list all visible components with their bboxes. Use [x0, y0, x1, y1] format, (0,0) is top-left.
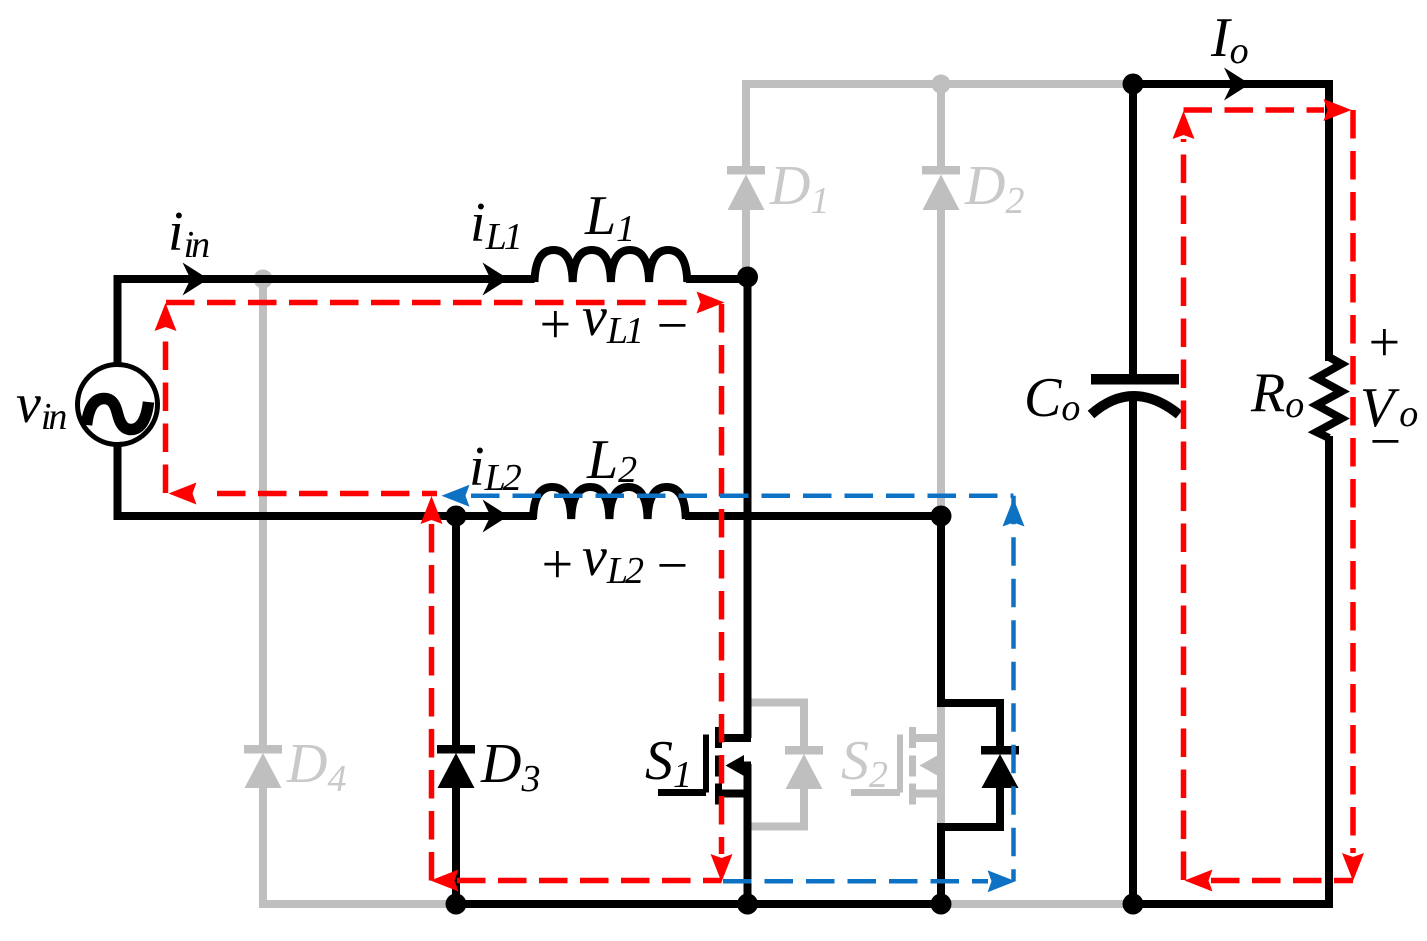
capacitor Co top plate	[1091, 374, 1179, 385]
svg-text:−: −	[653, 535, 691, 597]
arrow i_L1 on wire	[483, 263, 509, 296]
wire node A to L2	[452, 512, 536, 520]
arrowhead red up (loop2 left)	[1173, 111, 1195, 139]
node bottom rail dot 4	[1123, 894, 1144, 915]
arrowhead blue right (bottom)	[988, 870, 1016, 892]
wire gray top rail	[746, 84, 1133, 170]
wire D2 branch lower	[937, 210, 945, 516]
node bottom rail dot 3	[931, 894, 952, 915]
diode D1 symbol	[727, 166, 765, 210]
resistor Ro zigzag	[1317, 357, 1342, 438]
arrowhead red down (loop2 right)	[1342, 853, 1364, 881]
wire red loop2 right vertical	[1350, 110, 1356, 853]
ac source vin wires	[118, 279, 535, 365]
wire red loop1 middle vertical	[719, 304, 725, 854]
wire bottom rail right	[1129, 900, 1333, 908]
diode D3 symbol	[437, 745, 475, 788]
transistor S1 (black mosfet symbol)	[658, 727, 752, 805]
wire top right rail	[1133, 84, 1329, 361]
arrowhead red up (loop1 inner)	[421, 496, 443, 524]
wire S2 body diode lower jog	[941, 787, 1000, 904]
wire L2 to node C	[685, 512, 945, 520]
arrowhead red left (loop2 bottom)	[1185, 870, 1213, 892]
wire red loop1 left vertical	[163, 330, 169, 493]
ac source vin sine glyph	[87, 399, 149, 430]
arrowhead red down (loop1 middle)	[711, 854, 733, 882]
arrowhead red right (loop2 top)	[1324, 99, 1352, 121]
wire L1 to node B	[686, 275, 751, 283]
node (gray junction on top input wire)	[254, 270, 273, 289]
arrow I_o on output wire	[1224, 68, 1250, 101]
wire node C down and jog to S2 body diode	[941, 514, 1000, 747]
arrowhead blue left (top)	[442, 485, 470, 507]
wire capacitor Co lower	[1129, 398, 1137, 904]
node B junction dot	[737, 267, 758, 288]
arrowhead red up (loop1 left)	[155, 303, 177, 331]
arrow i_L2 on wire	[483, 500, 509, 533]
transistor S1 arrow	[726, 755, 745, 776]
diode D4 symbol	[244, 745, 282, 788]
ac source vin circle	[78, 365, 158, 445]
arrowhead blue up (right vertical)	[1003, 499, 1025, 527]
wire node B down to S1 drain	[744, 275, 752, 738]
wire red loop2 left vertical	[1181, 139, 1187, 880]
wire D3 branch upper	[452, 516, 460, 745]
wire D2 branch upper	[937, 84, 945, 170]
wire gray bottom left rail	[263, 788, 456, 904]
node (gray junction top rail / D2)	[932, 75, 951, 94]
wire D3 branch lower	[452, 786, 460, 904]
inductor L1 coil	[535, 250, 688, 282]
wire gray bottom right rail	[941, 900, 1133, 908]
svg-text:+: +	[538, 534, 576, 596]
wire blue bottom horizontal	[723, 879, 988, 884]
diode D2 symbol	[922, 166, 960, 210]
wire D1 branch lower	[742, 210, 750, 272]
wire red loop1 bottom horizontal	[457, 878, 722, 884]
arrowhead red left (loop1 bottom)	[431, 870, 459, 892]
wire red loop2 bottom horizontal	[1211, 878, 1353, 884]
node A junction dot	[446, 506, 467, 527]
wire vin bottom to node A	[118, 444, 453, 516]
inductor L2 coil	[533, 487, 686, 519]
node top-right junction dot	[1123, 74, 1144, 95]
transistor S2 (gray mosfet symbol)	[851, 705, 944, 827]
node bottom rail dot 2	[737, 894, 758, 915]
arrow i_in on input wire	[183, 263, 209, 296]
wire D4 branch vertical	[259, 279, 267, 745]
capacitor Co bottom curved plate	[1091, 396, 1179, 415]
transistor S2 arrow	[920, 755, 939, 776]
wire red loop2 top horizontal	[1184, 107, 1325, 113]
wire capacitor Co upper	[1129, 84, 1137, 374]
wire blue right vertical	[1011, 496, 1016, 882]
diode body of S2 (black) symbol	[981, 746, 1019, 788]
wire S1 source down to bottom rail	[744, 764, 752, 904]
wire Ro lower	[1325, 436, 1333, 904]
arrowhead red right (loop1 top)	[697, 292, 725, 314]
svg-text:+: +	[1365, 312, 1403, 374]
diode body of S1 (gray) symbol	[785, 746, 823, 789]
wire red loop1 top horizontal	[166, 300, 698, 306]
svg-text:−: −	[1366, 411, 1404, 473]
wire S1 body-diode loop	[749, 703, 804, 827]
wire red loop1 inner vertical	[429, 524, 435, 881]
wire bottom rail left	[452, 900, 945, 908]
arrowhead red left (loop1 lower)	[169, 483, 197, 505]
wire red loop1 lower horizontal	[217, 491, 437, 497]
wire blue top horizontal	[471, 494, 1014, 499]
node C junction dot	[931, 506, 952, 527]
node bottom rail dot 1	[446, 894, 467, 915]
